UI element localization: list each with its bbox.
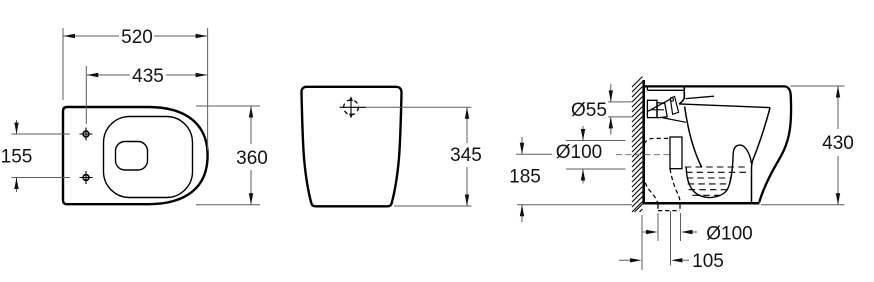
svg-text:435: 435 — [132, 66, 164, 87]
svg-text:430: 430 — [822, 133, 854, 154]
svg-text:520: 520 — [121, 27, 153, 48]
svg-text:360: 360 — [236, 148, 268, 169]
svg-text:185: 185 — [509, 167, 541, 188]
svg-text:155: 155 — [1, 147, 33, 168]
svg-text:Ø55: Ø55 — [571, 100, 607, 121]
svg-text:345: 345 — [450, 145, 482, 166]
svg-text:105: 105 — [692, 251, 724, 272]
svg-text:Ø100: Ø100 — [556, 142, 602, 163]
svg-text:Ø100: Ø100 — [706, 224, 752, 245]
